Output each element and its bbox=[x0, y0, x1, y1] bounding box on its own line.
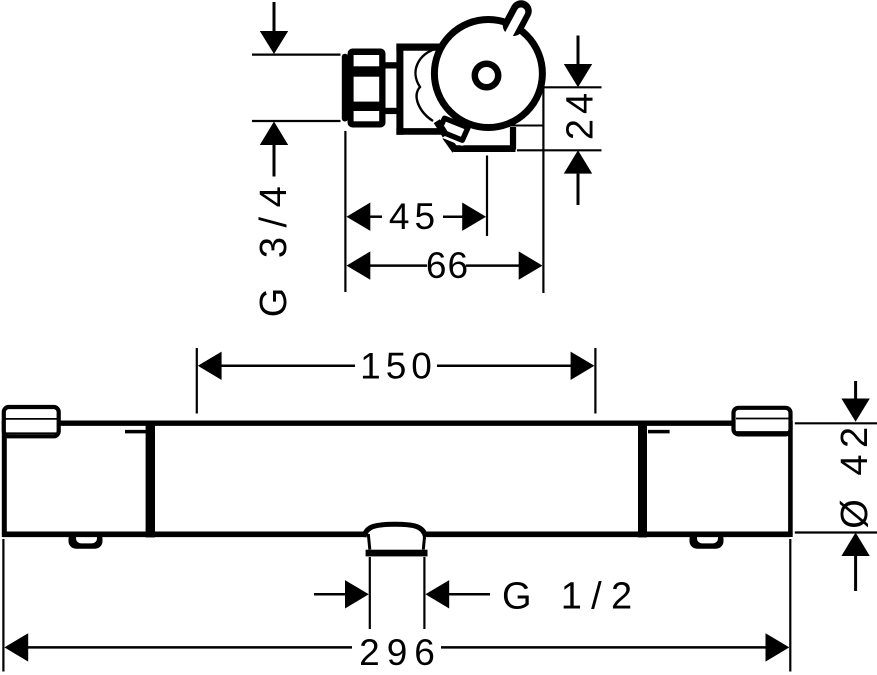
dimension 45 line left stub bbox=[370, 215, 382, 218]
svg-text:Ø 42: Ø 42 bbox=[834, 420, 876, 528]
dimension G3/4 upper arrow (down) bbox=[260, 31, 288, 54]
dimension 24 upper arrow (down) bbox=[564, 64, 592, 87]
dimension 24 lower arrow (up) bbox=[564, 150, 592, 173]
wall flange right inner line 1 bbox=[736, 418, 790, 420]
wall flange right inner line 2 bbox=[736, 431, 790, 433]
outlet face reference thin line bbox=[505, 125, 543, 127]
outlet foot right edge bbox=[510, 127, 516, 150]
dimension G1/2 tail right bbox=[449, 593, 490, 596]
svg-text:G 1/2: G 1/2 bbox=[502, 575, 641, 617]
knob ring bbox=[434, 20, 542, 128]
union nut slot upper bbox=[354, 55, 380, 66]
right tick bbox=[648, 430, 670, 434]
dimension G1/2 tail left bbox=[314, 593, 346, 596]
dimension 150 line right bbox=[437, 365, 571, 368]
svg-text:66: 66 bbox=[426, 245, 469, 286]
union nut left cap bbox=[342, 54, 348, 122]
dimension 150 line left bbox=[221, 365, 355, 368]
union nut body bbox=[348, 49, 386, 128]
right union bar bbox=[638, 421, 647, 538]
hook bump left outer bbox=[69, 532, 103, 549]
dimension 66 arrow left bbox=[347, 251, 371, 279]
dimension D42 reference bottom bbox=[795, 531, 877, 533]
dimension 296 extension left bbox=[2, 539, 4, 672]
neck bar upper bbox=[385, 62, 397, 68]
hook bump left inner bbox=[76, 529, 97, 543]
outlet arch bbox=[364, 524, 426, 537]
left tick bbox=[125, 430, 147, 434]
outlet bottom bar bbox=[366, 550, 428, 557]
svg-text:24: 24 bbox=[560, 88, 602, 140]
dimension 45 arrow left bbox=[347, 203, 371, 231]
dimension D42 arrow bottom (up) bbox=[841, 533, 869, 557]
neck bar lower bbox=[385, 108, 397, 114]
dimension 24 lower tail line bbox=[577, 174, 580, 205]
outlet foot left diagonal bbox=[446, 137, 456, 151]
dimension 150 extension left bbox=[196, 348, 198, 414]
outlet side left bbox=[368, 534, 370, 550]
dimension 66 line right bbox=[466, 264, 519, 267]
dimension 296 arrow left bbox=[4, 633, 28, 661]
svg-text:G 3/4: G 3/4 bbox=[253, 177, 295, 317]
dimension 45 line right stub bbox=[443, 215, 463, 218]
dimension G1/2 arrow left (right-pointing) bbox=[345, 580, 369, 608]
outlet channel left cap bbox=[437, 121, 446, 135]
svg-text:45: 45 bbox=[389, 196, 440, 237]
knob skirt scallops bbox=[416, 48, 438, 121]
knob hub circle bbox=[475, 64, 498, 87]
wall flange right bbox=[734, 408, 791, 435]
wall flange left inner line 1 bbox=[5, 418, 58, 420]
outlet gap mask bbox=[367, 528, 427, 541]
outlet side right bbox=[423, 534, 425, 550]
lever outer bbox=[514, 11, 522, 25]
dimension 66 line left bbox=[370, 264, 427, 267]
dimension 24 upper reference line bbox=[543, 86, 602, 88]
dimension 296 line left bbox=[28, 646, 352, 649]
bar bottom edge bbox=[3, 531, 790, 537]
dimension D42 reference top bbox=[795, 422, 877, 424]
bar top edge bbox=[4, 421, 790, 426]
dimension G1/2 extension left bbox=[369, 557, 371, 629]
dimension 150 arrow right bbox=[571, 352, 595, 380]
wall flange left inner line 2 bbox=[5, 432, 58, 434]
union nut slot middle bbox=[354, 77, 380, 102]
extension line outlet center bbox=[486, 156, 488, 237]
lever inner channel bbox=[505, 12, 522, 43]
valve body bottom edge bbox=[396, 128, 442, 135]
hook bump right outer bbox=[690, 532, 724, 549]
valve body top edge bbox=[396, 43, 446, 50]
dimension G3/4 lower tail line bbox=[273, 145, 276, 177]
svg-text:150: 150 bbox=[360, 345, 437, 386]
dimension 66 arrow right bbox=[519, 251, 543, 279]
dimension 296 arrow right bbox=[766, 633, 790, 661]
dimension 45 arrow right bbox=[462, 203, 486, 231]
dimension D42 tail bottom bbox=[854, 556, 857, 591]
wall flange left bbox=[4, 407, 59, 436]
dimension D42 tail top bbox=[854, 381, 857, 399]
valve body left edge bbox=[396, 44, 403, 135]
dimension 296 extension right bbox=[789, 539, 791, 672]
left end edge bbox=[2, 421, 7, 537]
dimension 296 line right bbox=[441, 646, 766, 649]
right end edge bbox=[788, 421, 793, 537]
dimension 24 lower reference line bbox=[517, 149, 602, 151]
dimension G3/4 upper reference line bbox=[252, 53, 341, 55]
extension line valve right bbox=[542, 87, 544, 293]
union nut slot lower bbox=[354, 111, 380, 121]
svg-text:296: 296 bbox=[359, 632, 442, 673]
hook bump right inner bbox=[697, 529, 718, 543]
dimension 150 extension right bbox=[594, 348, 596, 414]
dimension G1/2 arrow right (left-pointing) bbox=[425, 580, 449, 608]
outlet angled channel white margin bbox=[439, 118, 468, 140]
dimension 24 upper tail line bbox=[577, 36, 580, 65]
dimension G1/2 extension right bbox=[423, 557, 425, 629]
outlet foot block fill bbox=[455, 125, 513, 149]
dimension G3/4 upper extension: vertical line bbox=[273, 2, 276, 32]
dimension 150 arrow left bbox=[198, 352, 222, 380]
outlet angled channel bbox=[439, 118, 468, 140]
dimension D42 arrow top (down) bbox=[841, 399, 869, 422]
dimension G3/4 lower arrow (up) bbox=[260, 122, 288, 146]
outlet foot bottom edge bbox=[454, 145, 516, 152]
extension line left (nut face) bbox=[344, 131, 346, 292]
left union bar bbox=[146, 421, 155, 538]
dimension G3/4 lower reference line bbox=[252, 120, 341, 122]
